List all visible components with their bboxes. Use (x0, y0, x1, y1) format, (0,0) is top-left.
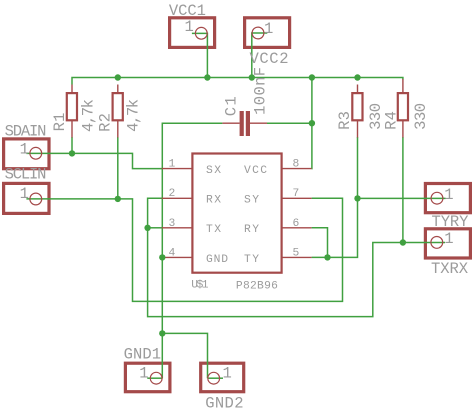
svg-text:330: 330 (412, 103, 430, 130)
svg-text:GND2: GND2 (205, 395, 243, 413)
svg-text:2: 2 (169, 188, 176, 200)
pin name RY (244, 224, 259, 236)
node junction R3 top (354, 74, 360, 80)
wire VCC1 drop (192, 33, 208, 77)
wire R4 bottom (402, 137, 404, 243)
wire net VCC bus (72, 78, 403, 85)
wire VCC2 drop (252, 33, 267, 78)
pin name SY (244, 195, 259, 207)
svg-text:C1: C1 (222, 96, 240, 116)
connector VCC2 box (245, 18, 290, 48)
label R1 (51, 113, 69, 132)
svg-text:1: 1 (169, 159, 176, 171)
wire pin 5 6 link (312, 228, 328, 258)
node junction R2 top (115, 74, 121, 80)
node junction R3 TYRY (354, 195, 360, 201)
svg-text:4: 4 (169, 247, 176, 259)
label R2 (97, 113, 115, 132)
pin number GND1 1 (139, 364, 148, 382)
pin number VCC1 1 (185, 18, 194, 36)
svg-text:P82B96: P82B96 (236, 280, 278, 292)
pin circle VCC1 (195, 27, 207, 39)
svg-text:1: 1 (223, 364, 232, 382)
wire TYRY stub (358, 197, 446, 199)
pin 2 RX line (162, 197, 192, 199)
pin circle GND2 (208, 372, 220, 384)
label TYRY (432, 213, 470, 231)
svg-text:VCC: VCC (244, 165, 267, 177)
node junction C1 right (309, 120, 315, 126)
svg-text:GND: GND (206, 254, 228, 266)
svg-text:U$1: U$1 (191, 280, 209, 292)
connector SCLIN box (4, 183, 49, 213)
value R4 330 (412, 103, 430, 130)
pin 8 VCC line (282, 168, 312, 170)
pin number VCC2 1 (264, 20, 273, 38)
pin 3 TX line (162, 227, 192, 229)
resistor R1 (67, 85, 77, 138)
resistor R4 (398, 79, 408, 138)
svg-text:1: 1 (444, 230, 453, 248)
value R2 4,7k (125, 99, 143, 132)
label GND1 (124, 346, 161, 364)
wire GND2 pin line (208, 377, 224, 379)
svg-text:TXRX: TXRX (431, 260, 469, 278)
svg-text:1: 1 (20, 140, 29, 158)
label C1 (222, 96, 240, 116)
label VCC1 (169, 2, 206, 20)
pin circle TYRY (431, 192, 443, 204)
pin number TXRX 1 (444, 230, 453, 248)
resistor R3 (352, 85, 362, 138)
pin number 3 (169, 218, 176, 230)
capacitor C1 (222, 111, 267, 136)
pin circle GND1 (150, 372, 162, 384)
label GND2 (205, 395, 243, 413)
value P82B96 (236, 280, 278, 292)
pin number 8 (293, 159, 300, 171)
connector SDAIN box (4, 139, 49, 169)
value R1 4,7k (79, 99, 97, 132)
label R4 (382, 111, 400, 130)
connector TXRX box (425, 229, 470, 258)
pin circle SDAIN (30, 147, 42, 159)
pin circle SCLIN (30, 193, 42, 205)
label VCC2 (250, 50, 289, 68)
pin number 6 (293, 218, 300, 230)
wire R1 bottom (71, 137, 73, 153)
svg-text:7: 7 (293, 188, 300, 200)
pin name RX (206, 195, 221, 207)
pin name GND (206, 254, 228, 266)
wire R2 bottom (117, 137, 119, 199)
node junction GND pin4 (159, 254, 165, 260)
svg-text:4,7k: 4,7k (79, 99, 97, 132)
node junction VCC pin8 (309, 74, 315, 80)
pin 6 RY line (282, 227, 312, 229)
pin 5 TY line (282, 256, 312, 258)
pin name TX (206, 224, 221, 236)
pin 7 SY line (282, 197, 312, 199)
pin name TY (244, 254, 259, 266)
op-amp U1 IC body P82B96 (192, 154, 281, 273)
svg-text:4,7k: 4,7k (125, 99, 143, 132)
svg-text:SY: SY (244, 195, 259, 207)
svg-text:1: 1 (444, 186, 453, 204)
pin name SX (206, 165, 221, 177)
wire R3 bottom rail (328, 137, 358, 257)
pin number 4 (169, 247, 176, 259)
node junction R1 SDAIN (69, 150, 75, 156)
pin number 2 (169, 188, 176, 200)
node junction TX tap (144, 225, 150, 231)
svg-text:SDAIN: SDAIN (5, 122, 47, 140)
svg-text:R3: R3 (336, 111, 354, 130)
wire pin 3 stub (148, 227, 162, 229)
svg-text:TX: TX (206, 224, 221, 236)
node junction GND split (159, 330, 165, 336)
node junction VCC2 (249, 74, 255, 80)
pin 4 GND line (162, 256, 192, 258)
pin 1 SX line (162, 168, 192, 170)
pin number SCLIN 1 (20, 185, 29, 203)
connector TYRY box (425, 184, 470, 213)
svg-text:RY: RY (244, 224, 259, 236)
wire SDAIN to pin 1 (26, 153, 161, 168)
connector VCC1 box (170, 18, 215, 48)
svg-text:R2: R2 (97, 113, 115, 132)
svg-text:RX: RX (206, 195, 221, 207)
label SCLIN (5, 166, 47, 184)
wire C1 right segment (267, 122, 312, 124)
svg-text:1: 1 (20, 185, 29, 203)
svg-text:1: 1 (139, 364, 148, 382)
pin number SDAIN 1 (20, 140, 29, 158)
svg-text:1: 1 (185, 18, 194, 36)
pin number GND2 1 (223, 364, 232, 382)
svg-text:R4: R4 (382, 111, 400, 130)
pin number 1 (169, 159, 176, 171)
wire SCLIN to pin 7 (26, 198, 342, 301)
value C1 100nF (252, 67, 270, 115)
value R3 330 (367, 103, 385, 130)
label R3 (336, 111, 354, 130)
svg-text:TY: TY (244, 254, 259, 266)
wire RX TX to TXRX (148, 198, 445, 316)
pin circle TXRX (431, 237, 443, 249)
wire GND1 pin line (147, 377, 162, 379)
label SDAIN (5, 122, 47, 140)
svg-text:VCC2: VCC2 (250, 50, 289, 68)
svg-text:8: 8 (293, 159, 300, 171)
label TXRX (431, 260, 469, 278)
pin name VCC (244, 165, 267, 177)
resistor R2 (113, 85, 123, 138)
wire VCC to pin 8 and C1 right (311, 78, 313, 169)
svg-text:5: 5 (293, 247, 300, 259)
pin number TYRY 1 (444, 186, 453, 204)
svg-text:6: 6 (293, 218, 300, 230)
svg-text:3: 3 (169, 218, 176, 230)
wire C1 left to GND rail (162, 123, 222, 378)
svg-text:TYRY: TYRY (432, 213, 470, 231)
svg-text:1: 1 (264, 20, 273, 38)
svg-text:GND1: GND1 (124, 346, 161, 364)
svg-text:SCLIN: SCLIN (5, 166, 47, 184)
pin number 5 (293, 247, 300, 259)
connector GND2 box (201, 363, 244, 392)
pin number 7 (293, 188, 300, 200)
node junction TY RY (324, 254, 330, 260)
connector GND1 box (125, 363, 169, 392)
svg-text:R1: R1 (51, 113, 69, 132)
node junction R4 TXRX (400, 239, 406, 245)
svg-text:SX: SX (206, 165, 221, 177)
label U$1 (191, 280, 209, 292)
node junction R2 SCLIN (115, 196, 121, 202)
wire GND branch to GND2 (162, 333, 207, 378)
pin circle VCC2 (252, 27, 264, 39)
svg-text:100nF: 100nF (252, 67, 270, 115)
node junction VCC1 (204, 74, 210, 80)
